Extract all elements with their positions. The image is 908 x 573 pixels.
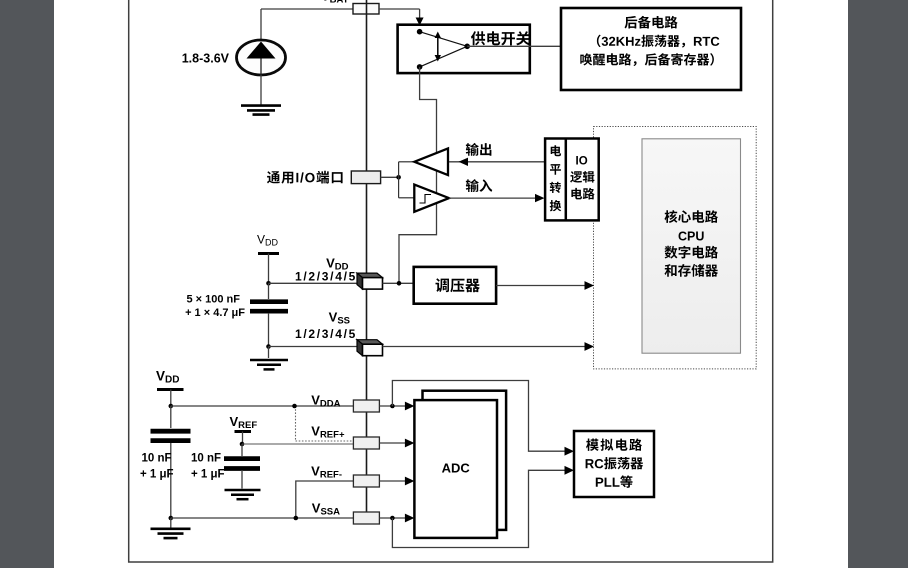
svg-text:IO: IO <box>576 156 588 168</box>
svg-text:1.8-3.6V: 1.8-3.6V <box>182 52 230 66</box>
svg-text:CPU: CPU <box>678 229 704 243</box>
svg-text:1/2/3/4/5: 1/2/3/4/5 <box>295 327 357 341</box>
svg-text:5 × 100 nF: 5 × 100 nF <box>186 294 240 306</box>
svg-text:10 nF: 10 nF <box>141 453 171 465</box>
svg-text:+ 1 μF: + 1 μF <box>191 469 225 481</box>
svg-text:1/2/3/4/5: 1/2/3/4/5 <box>295 270 357 284</box>
svg-text:10 nF: 10 nF <box>191 453 221 465</box>
svg-text:+ 1 μF: + 1 μF <box>140 469 174 481</box>
svg-text:ADC: ADC <box>442 461 471 476</box>
svg-text:+ 1 × 4.7 μF: + 1 × 4.7 μF <box>185 307 245 319</box>
